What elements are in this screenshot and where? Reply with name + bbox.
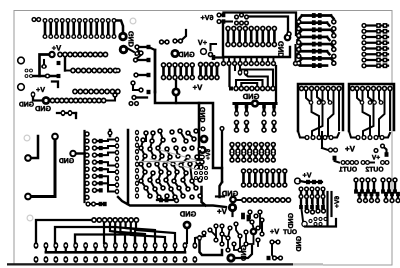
svg-text:GND: GND <box>127 31 136 47</box>
svg-text:GND: GND <box>288 213 295 229</box>
svg-text:6V+: 6V+ <box>205 149 212 160</box>
svg-text:GND: GND <box>242 92 259 101</box>
svg-text:+V: +V <box>345 145 356 154</box>
svg-text:+V: +V <box>193 83 204 92</box>
svg-text:+V: +V <box>303 171 312 180</box>
svg-text:OUT2: OUT2 <box>365 167 383 174</box>
svg-text:+V: +V <box>36 85 45 94</box>
svg-text:GND: GND <box>59 158 74 165</box>
svg-text:+V: +V <box>217 207 228 216</box>
svg-text:GND: GND <box>277 41 286 58</box>
svg-text:+V: +V <box>270 227 279 236</box>
svg-text:GND: GND <box>200 107 207 123</box>
svg-text:GND: GND <box>178 50 195 59</box>
svg-text:6V+: 6V+ <box>334 196 341 208</box>
svg-text:GND: GND <box>296 236 303 252</box>
svg-text:+V: +V <box>198 38 207 47</box>
svg-text:OUT1: OUT1 <box>339 167 357 174</box>
svg-text:6V+: 6V+ <box>201 13 214 22</box>
svg-text:+V: +V <box>371 155 380 162</box>
svg-text:OUT: OUT <box>283 229 297 236</box>
svg-text:GND: GND <box>35 104 51 113</box>
svg-text:GND: GND <box>179 210 196 219</box>
svg-text:GND: GND <box>19 102 34 109</box>
